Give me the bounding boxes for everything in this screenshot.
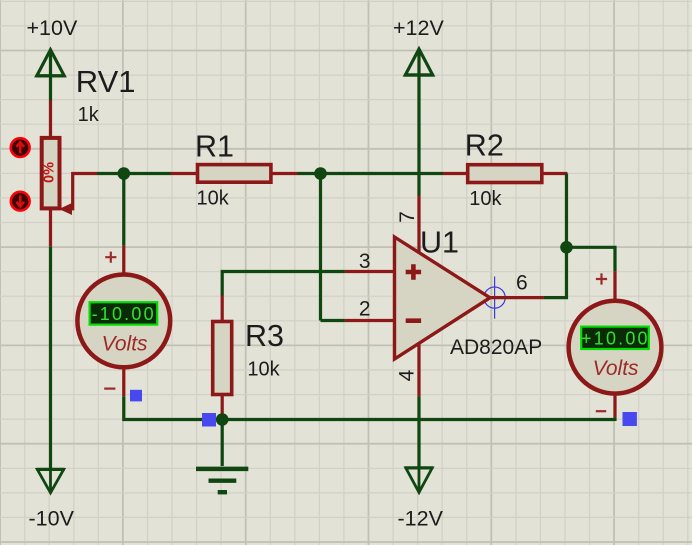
potentiometer RV1 top pin	[49, 101, 52, 138]
voltmeter right plus mark	[596, 273, 607, 284]
potentiometer RV1 body	[42, 138, 60, 209]
U1 plus input mark	[406, 264, 421, 279]
ground rail wire	[222, 418, 615, 421]
resistor R2 right pin	[543, 172, 568, 175]
svg-text:1k: 1k	[78, 104, 100, 126]
svg-text:-10.00: -10.00	[92, 304, 156, 324]
wire +10V to RV1	[49, 76, 52, 101]
svg-text:10k: 10k	[469, 188, 502, 210]
ground symbol	[196, 469, 248, 492]
svg-text:+10V: +10V	[27, 16, 78, 40]
junction node D (ground node)	[216, 413, 229, 426]
op-amp U1 pin 6 output wire	[490, 296, 543, 299]
resistor R2 left pin	[443, 172, 467, 175]
svg-text:4: 4	[396, 369, 419, 381]
ground node terminal marker (blue)	[202, 413, 216, 427]
svg-text:10k: 10k	[247, 358, 280, 380]
junction node A	[118, 167, 131, 180]
voltmeter right minus mark	[596, 410, 606, 412]
resistor R3 bottom pin	[221, 395, 224, 414]
svg-text:-12V: -12V	[398, 507, 444, 531]
RV1 wiper arrow and wire	[59, 174, 97, 216]
voltmeter left plus mark	[105, 252, 116, 263]
resistor R1 left pin	[171, 172, 198, 175]
op-amp U1 pin 2 wire	[345, 319, 394, 322]
svg-text:Volts: Volts	[593, 357, 639, 380]
power symbol +10V arrow	[36, 50, 65, 76]
svg-text:+10.00: +10.00	[581, 329, 650, 349]
voltmeter right top pin	[613, 271, 616, 299]
wire junction B down	[319, 174, 322, 321]
op-amp U1 pin 7 wire	[417, 196, 420, 254]
voltmeter left display	[90, 302, 158, 324]
RV1 bottom pin	[49, 209, 52, 246]
wire +12V to pin 7	[417, 75, 420, 196]
voltmeter left body	[77, 275, 170, 368]
wire voltmeter right to rail	[613, 417, 616, 421]
svg-text:AD820AP: AD820AP	[450, 336, 542, 359]
svg-text:U1: U1	[420, 225, 459, 259]
wire pin 4 to -12V	[417, 396, 420, 468]
wire junction C to right voltmeter	[567, 247, 616, 271]
svg-text:10k: 10k	[197, 187, 230, 209]
svg-text:R1: R1	[195, 129, 234, 163]
svg-text:R2: R2	[465, 128, 504, 162]
voltmeter left minus mark	[104, 388, 115, 390]
resistor R3 body	[213, 322, 232, 395]
op-amp U1 pin 4 wire	[417, 344, 420, 396]
voltmeter right terminal marker (blue)	[623, 412, 637, 426]
svg-text:-10V: -10V	[29, 507, 75, 531]
op-amp U1 body	[395, 237, 491, 359]
svg-text:7: 7	[396, 211, 419, 223]
junction node B (inverting input node)	[314, 167, 327, 180]
wire R2 down to output	[543, 174, 566, 298]
voltmeter left bottom pin	[122, 369, 125, 396]
wire R1 to R2	[298, 172, 444, 175]
voltmeter right bottom pin	[613, 396, 616, 418]
svg-text:R3: R3	[245, 319, 284, 353]
svg-text:3: 3	[359, 250, 371, 273]
wire junction A down to voltmeter	[122, 174, 125, 246]
wire junction D to ground	[221, 420, 224, 467]
svg-text:Volts: Volts	[102, 333, 148, 356]
voltmeter right display	[581, 327, 650, 349]
svg-text:2: 2	[359, 298, 371, 321]
wire voltmeter left to rail	[124, 396, 222, 419]
svg-text:RV1: RV1	[76, 64, 136, 99]
svg-text:0%: 0%	[42, 162, 58, 183]
voltmeter right body	[569, 301, 662, 394]
wire pin 3 to R3	[222, 272, 345, 296]
wire wiper to R1	[97, 172, 171, 175]
resistor R2 body	[468, 165, 542, 183]
power symbol -10V arrow	[36, 469, 64, 492]
wire to pin 2	[321, 319, 345, 322]
power symbol +12V arrow	[404, 49, 433, 75]
resistor R3 top pin	[221, 296, 224, 322]
U1 minus input mark	[406, 318, 421, 323]
op-amp U1 pin 3 wire	[345, 270, 394, 273]
RV1 increment button	[11, 138, 30, 157]
resistor R1 right pin	[272, 172, 298, 175]
svg-text:6: 6	[516, 272, 528, 295]
power symbol -12V arrow	[405, 468, 433, 493]
RV1 decrement button	[11, 192, 30, 211]
wire RV1 to -10V	[49, 246, 52, 469]
output origin marker (blue crosshair)	[484, 277, 506, 319]
voltmeter left top pin	[122, 246, 125, 273]
voltmeter left terminal marker (blue)	[130, 390, 142, 402]
junction node C (output node)	[560, 241, 573, 254]
resistor R1 body	[198, 165, 271, 183]
svg-text:+12V: +12V	[393, 16, 444, 40]
